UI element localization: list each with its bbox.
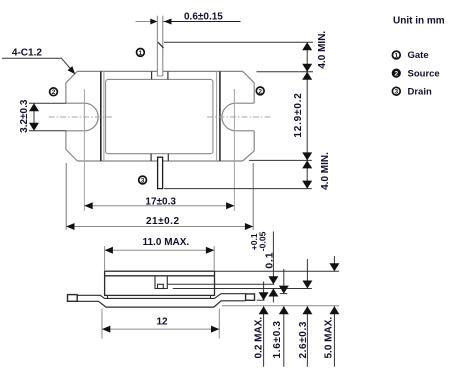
ext 3.2 bottom xyxy=(29,130,66,132)
wire left slot arc xyxy=(84,103,98,131)
wire chamfer bottom-left xyxy=(66,150,78,162)
left lead end box xyxy=(68,295,78,302)
cap foot tick left xyxy=(107,295,109,298)
wire right slot bottom xyxy=(236,130,255,132)
centerline left hole vertical xyxy=(83,89,85,211)
arrowheads side view xyxy=(102,247,339,333)
flange outline (octagon with slots) xyxy=(66,71,254,161)
right lead end box xyxy=(246,294,255,300)
centerline right hole vertical xyxy=(233,89,235,211)
wire right edge upper xyxy=(253,83,255,103)
arrow 11.0 right xyxy=(206,247,214,254)
extension line flange left (21 dim) xyxy=(65,163,67,230)
arrow 12 left xyxy=(102,326,110,333)
wire right edge lower xyxy=(253,131,255,151)
arrowheads top view xyxy=(29,19,312,231)
pin number 3 xyxy=(139,176,147,184)
arrow 1.6 up xyxy=(279,306,289,314)
dim line 21 xyxy=(66,226,253,228)
cap lid inner rectangle xyxy=(106,79,213,153)
pin number 2 left xyxy=(50,88,58,96)
dim 5.0 line upper xyxy=(333,256,335,271)
extension line flange right (21 dim) xyxy=(252,163,254,230)
wire left edge lower xyxy=(65,131,67,150)
plate bottom with bends xyxy=(77,301,245,307)
lead slot tick top-right xyxy=(167,71,169,79)
arrow 3.2 up xyxy=(29,103,39,111)
centerline left hole horizontal xyxy=(49,116,113,118)
ext 12 right xyxy=(218,309,220,339)
svg-text:Source: Source xyxy=(408,68,440,79)
svg-text:12.9±0.2: 12.9±0.2 xyxy=(293,92,304,137)
dim 2.6 line lower xyxy=(306,306,308,367)
arrow 0.2 down xyxy=(259,292,269,300)
tick 0.2 ref xyxy=(257,299,265,301)
svg-text:1: 1 xyxy=(139,50,143,57)
dim line 3.2 vertical xyxy=(33,103,35,131)
ext cap top right xyxy=(215,270,340,272)
wire top edge left of lead xyxy=(77,70,157,72)
ext lead bottom xyxy=(173,288,312,290)
wire top edge right of lead xyxy=(163,70,243,72)
flange plate top xyxy=(105,297,215,299)
wire right slot top xyxy=(236,102,255,104)
ext 12 left xyxy=(101,309,103,339)
dim 0.1 line upper xyxy=(272,232,274,285)
lead window outer box xyxy=(155,276,167,289)
svg-text:1.6±0.3: 1.6±0.3 xyxy=(272,320,283,358)
ext seating plane xyxy=(222,305,339,307)
dim line 17 xyxy=(84,205,234,207)
lead bend line xyxy=(158,42,164,48)
arrow 4.0top up xyxy=(302,42,312,50)
wire right slot arc xyxy=(222,103,236,131)
svg-text:21±0.2: 21±0.2 xyxy=(146,216,180,227)
svg-text:0.2 MAX.: 0.2 MAX. xyxy=(253,317,264,359)
ext lead top xyxy=(167,283,274,285)
arrow 12.9 down xyxy=(302,152,312,160)
svg-text:2: 2 xyxy=(52,89,56,96)
arrow 21 left xyxy=(66,223,74,230)
centerline right hole horizontal xyxy=(207,116,272,118)
cap outer side dark right xyxy=(219,71,221,161)
svg-text:1: 1 xyxy=(394,52,398,59)
legend pin 2 xyxy=(392,69,401,78)
arrow 17 left xyxy=(84,202,92,209)
arrow 4.0top down xyxy=(302,64,312,72)
wire chamfer top-right xyxy=(243,71,254,82)
wire bottom edge left of lead xyxy=(77,160,157,162)
ext lead2 tip right xyxy=(164,188,312,190)
svg-text:17±0.3: 17±0.3 xyxy=(145,197,176,208)
dim 5.0 line lower xyxy=(333,306,335,367)
svg-text:Gate: Gate xyxy=(408,50,429,61)
svg-text:Unit in mm: Unit in mm xyxy=(393,16,445,27)
cap inner side gray right xyxy=(216,71,218,161)
svg-text:2: 2 xyxy=(258,88,262,95)
dim 1.6 line lower xyxy=(283,306,285,367)
cap inner side gray left xyxy=(103,71,105,161)
arrow 1.6 down xyxy=(279,286,289,294)
left tab top line xyxy=(77,295,104,298)
svg-text:11.0 MAX.: 11.0 MAX. xyxy=(143,237,190,248)
svg-text:2.6±0.3: 2.6±0.3 xyxy=(298,321,309,359)
dim 0.2 line upper xyxy=(263,282,265,301)
arrow 0.6 right xyxy=(164,19,172,25)
arrow 2.6 up xyxy=(302,306,312,314)
lead slot tick top-left xyxy=(151,71,153,79)
lead slot tick bottom-right xyxy=(167,154,169,161)
lead slot tick bottom-left xyxy=(150,154,152,161)
lead cross-section box xyxy=(158,284,164,288)
arrow 11.0 left xyxy=(105,247,113,254)
arrow 0.6 left xyxy=(150,19,157,25)
wire left edge upper xyxy=(65,83,67,103)
svg-text:3: 3 xyxy=(141,177,145,184)
arrow 4-C1.2 leader xyxy=(68,66,76,74)
svg-text:0.6±0.15: 0.6±0.15 xyxy=(184,12,223,23)
arrow 4.0bot down xyxy=(302,181,312,189)
ext 3.2 top xyxy=(29,102,66,104)
dim 0.2 line lower xyxy=(263,306,265,367)
pin number 2 right xyxy=(256,87,264,95)
legend pin 1 xyxy=(392,51,400,59)
arrow 12 right xyxy=(211,326,219,333)
arrow 17 right xyxy=(226,202,234,209)
gate lead (top) xyxy=(157,16,163,76)
leader 4-C1.2 xyxy=(2,58,72,70)
cap body side view xyxy=(105,271,215,295)
arrow 4.0bot up xyxy=(302,160,312,168)
ext 11.0 right xyxy=(213,246,215,270)
dim line vertical right column xyxy=(306,42,308,188)
svg-text:5.0 MAX.: 5.0 MAX. xyxy=(324,317,335,359)
dim 1.6 line upper xyxy=(283,269,285,293)
svg-text:4.0 MIN.: 4.0 MIN. xyxy=(317,31,328,69)
arrow 3.2 down xyxy=(29,123,39,131)
svg-text:4-C1.2: 4-C1.2 xyxy=(12,48,42,59)
svg-text:3.2±0.3: 3.2±0.3 xyxy=(19,99,30,133)
ext flange top right xyxy=(257,71,314,73)
arrow 0.1 up xyxy=(268,289,278,297)
right tab top line xyxy=(215,294,246,299)
ext flange bottom right xyxy=(249,159,312,161)
cap outer side dark left xyxy=(100,71,102,161)
dim line 12 xyxy=(102,328,219,330)
svg-text:4.0 MIN.: 4.0 MIN. xyxy=(320,152,331,190)
arrow 0.2 up xyxy=(259,306,269,314)
ext lead tip right xyxy=(164,41,313,43)
dim 2.6 line upper xyxy=(306,259,308,288)
dim line 11.0 xyxy=(105,249,215,251)
arrow 21 right xyxy=(245,223,253,230)
pin number 1 xyxy=(137,49,145,57)
wire chamfer top-left xyxy=(66,71,77,82)
svg-text:-0.05: -0.05 xyxy=(257,231,267,251)
wire left slot top xyxy=(66,102,85,104)
legend pin 3 xyxy=(392,87,400,95)
svg-text:Drain: Drain xyxy=(408,86,432,97)
svg-text:3: 3 xyxy=(394,89,398,96)
wire left slot bottom xyxy=(66,130,85,132)
drain lead (bottom) xyxy=(158,157,163,188)
cap lid line xyxy=(105,275,215,277)
dim line 0.6 xyxy=(136,21,158,23)
wire bottom edge right of lead xyxy=(163,160,243,162)
svg-text:2: 2 xyxy=(394,71,398,78)
svg-text:0.1: 0.1 xyxy=(264,252,276,269)
arrow 0.1 down xyxy=(268,276,278,284)
cap foot tick right xyxy=(210,295,212,298)
dim 0.1 line lower xyxy=(272,289,274,303)
arrow 5.0 up xyxy=(329,306,339,314)
arrow 5.0 down xyxy=(329,263,339,271)
ext 11.0 left xyxy=(104,246,106,270)
svg-text:12: 12 xyxy=(157,316,169,327)
arrow 12.9 up xyxy=(302,72,312,80)
tick 1.6 ref xyxy=(280,293,288,295)
arrow 2.6 down xyxy=(302,281,312,289)
wire chamfer bottom-right xyxy=(243,151,255,161)
